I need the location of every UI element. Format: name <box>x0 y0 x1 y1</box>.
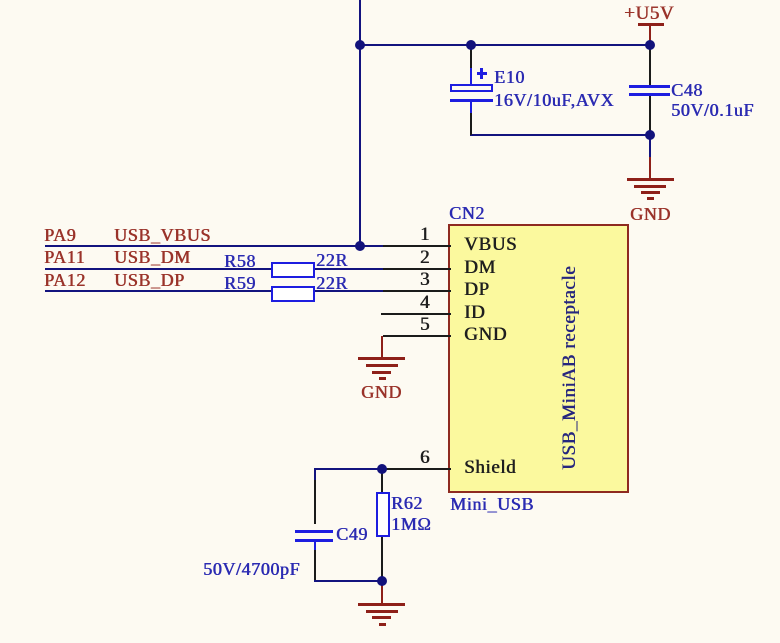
wire E10 top black segment <box>470 46 472 70</box>
net label PA12 <box>44 271 86 289</box>
comment Mini_USB <box>450 495 534 513</box>
designator R58 <box>224 252 256 270</box>
capacitor E10 bottom plate <box>450 99 493 102</box>
pin name GND <box>464 326 507 344</box>
wire DP row <box>45 290 383 292</box>
resistor R59 body <box>271 286 315 302</box>
pin name Shield <box>464 459 516 477</box>
value 50V/4700pF <box>203 560 300 578</box>
value 1M ohm <box>391 515 431 533</box>
wire shield row left <box>314 468 383 470</box>
capacitor E10 bottom blue stub <box>470 102 472 113</box>
ground G2 bars <box>627 178 674 181</box>
ground text GND (G1) <box>361 383 402 401</box>
wire bottom row <box>314 580 383 582</box>
capacitor E10 plus sign <box>477 72 487 75</box>
wire R62 top black segment <box>381 470 383 492</box>
wire DM row <box>45 268 383 270</box>
ground G3 stem (bottom) <box>381 582 383 603</box>
designator E10 <box>494 68 525 86</box>
designator C49 <box>336 525 368 543</box>
capacitor C49 lower blue stub <box>314 542 316 550</box>
pin number 2 <box>406 249 430 267</box>
capacitor E10 top blue stub <box>470 68 472 84</box>
ground G2 stem (C48) <box>649 157 651 178</box>
pin number 1 <box>406 226 430 244</box>
designator R59 <box>224 274 256 292</box>
ground G1 bars <box>358 357 405 360</box>
wire C48 bottom black segment <box>649 96 651 135</box>
pin name ID <box>464 304 485 322</box>
resistor R62 body <box>376 492 390 537</box>
wire VBUS row <box>45 245 383 247</box>
junction at top rail / main vertical <box>355 40 365 50</box>
wire C49 upper black segment <box>314 480 316 524</box>
wire main vertical from sheet top <box>359 0 361 247</box>
value 50V/0.1uF <box>671 101 754 119</box>
ground G3 bars <box>358 603 405 606</box>
value 22R (R58) <box>316 251 348 269</box>
pin 2 line <box>383 268 451 270</box>
pin number 3 <box>406 271 430 289</box>
pin 5 line <box>383 335 451 337</box>
pin 1 line <box>383 245 451 247</box>
junction at top rail / C48 <box>645 40 655 50</box>
pin number 5 <box>406 316 430 334</box>
pin name VBUS <box>464 236 517 254</box>
resistor R58 body <box>271 262 315 278</box>
capacitor C48 top plate <box>629 85 670 88</box>
wire C48 below junction stub <box>649 135 651 157</box>
ground G1 stem (pin5) <box>381 336 383 358</box>
wire top horizontal rail <box>359 44 651 46</box>
wire R62 bottom black segment <box>381 537 383 581</box>
wire C49 lower black segment <box>314 548 316 580</box>
wire C48 top black segment <box>649 46 651 86</box>
ground text GND (G2) <box>630 205 671 223</box>
comment USB_MiniAB receptacle (vertical) <box>560 266 579 470</box>
net label USB_DM <box>114 248 191 266</box>
component CN2 USB_MiniAB receptacle body <box>448 224 629 493</box>
capacitor E10 top plate <box>450 84 493 92</box>
capacitor C49 top plate <box>295 530 333 533</box>
net label PA9 <box>44 226 76 244</box>
net label USB_DP <box>114 271 185 289</box>
value 22R (R59) <box>316 274 348 292</box>
pin 6 line <box>383 468 451 470</box>
power port +U5V bar <box>638 23 664 26</box>
pin name DM <box>464 259 496 277</box>
pin 3 line <box>383 290 451 292</box>
pin number 4 <box>406 294 430 312</box>
designator C48 <box>671 81 703 99</box>
junction at VBUS row <box>355 241 365 251</box>
net label PA11 <box>44 248 85 266</box>
capacitor C49 bottom plate <box>295 539 333 542</box>
value 16V/10uF,AVX <box>494 91 614 109</box>
net label USB_VBUS <box>114 226 211 244</box>
power port +U5V stem <box>649 26 651 45</box>
wire E10 bottom black segment <box>470 113 472 135</box>
junction at E10 bottom / C48 <box>645 130 655 140</box>
wire E10 bottom horizontal <box>470 134 651 136</box>
pin name DP <box>464 281 490 299</box>
wire C49 top stub <box>314 468 316 480</box>
pin number 6 <box>406 449 430 467</box>
power net +U5V <box>624 5 674 23</box>
designator R62 <box>391 494 423 512</box>
junction at shield row <box>377 464 387 474</box>
pin 4 line <box>381 313 451 315</box>
capacitor C48 bottom plate <box>629 93 670 96</box>
junction at top rail / E10 <box>466 40 476 50</box>
junction at bottom row <box>377 576 387 586</box>
designator CN2 <box>449 204 485 222</box>
